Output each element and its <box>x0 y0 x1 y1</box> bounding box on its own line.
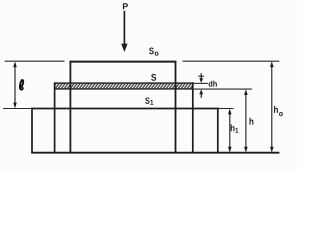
dh upper indicator: overshoot stem with T-bar and down arrow <box>198 73 204 83</box>
right edge of strip and middle block S1 (to bottom) <box>192 82 194 152</box>
upper die right edge (continues down through stack) <box>175 61 177 153</box>
dimension h0 <box>270 61 274 152</box>
upper die top edge <box>70 61 177 63</box>
upper die left edge (continues down through stack) <box>69 61 71 153</box>
dh lower indicator: up arrow below strip <box>199 89 203 97</box>
top reference line (right) <box>183 60 280 62</box>
label h <box>249 118 253 125</box>
base block right edge <box>217 108 219 153</box>
specimen strip S (hatched) <box>55 83 194 89</box>
label S inside upper die <box>151 74 156 81</box>
top reference line (left) <box>5 60 65 62</box>
force arrow P <box>121 11 127 52</box>
base block left edge <box>31 108 33 153</box>
ground line with right extension <box>31 152 279 154</box>
force label P <box>123 3 128 9</box>
dimension l (left) <box>13 61 17 108</box>
strip-bottom reference line extended right (line B, for h) <box>193 88 252 90</box>
dimension h1 <box>228 109 232 153</box>
label S0 <box>149 48 158 56</box>
left edge of strip and middle block (to bottom) <box>54 82 56 152</box>
label h1 <box>231 124 239 132</box>
label h0 <box>274 106 283 116</box>
dimension h <box>244 89 248 152</box>
strip-top reference line extended right (line A) <box>193 82 208 84</box>
base block top edge (thick) with thin extensions <box>3 108 32 110</box>
label S1 <box>145 98 153 105</box>
label dh <box>209 81 217 87</box>
label l (script ell) <box>20 80 23 90</box>
